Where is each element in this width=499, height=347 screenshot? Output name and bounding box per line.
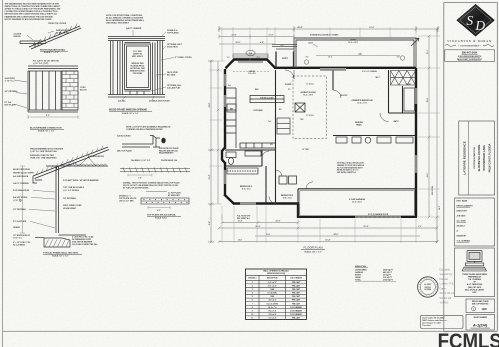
svg-text:2x4 P.T. HEADER: 2x4 P.T. HEADER bbox=[126, 27, 142, 30]
svg-text:13'-4": 13'-4" bbox=[208, 174, 211, 179]
svg-text:ON CLEAN COMPACTED FILL: ON CLEAN COMPACTED FILL bbox=[72, 243, 99, 246]
svg-text:7x8: 7x8 bbox=[268, 121, 271, 123]
svg-text:8'-0: 8'-0 bbox=[306, 57, 309, 59]
svg-text:16'-0 x 7'-0: 16'-0 x 7'-0 bbox=[268, 307, 276, 309]
svg-text:21'-0": 21'-0" bbox=[427, 173, 429, 178]
svg-text:10'-0": 10'-0" bbox=[427, 50, 429, 55]
top dimension line third bbox=[219, 43, 275, 45]
svg-text:@ 16" O.C.: @ 16" O.C. bbox=[5, 80, 15, 82]
svg-text:@ 16" O.C. (TYP): @ 16" O.C. (TYP) bbox=[33, 63, 49, 65]
svg-text:Date:: Date: bbox=[440, 286, 447, 290]
svg-text:DIRECTORY: DIRECTORY bbox=[457, 211, 468, 213]
svg-text:No. 56807: No. 56807 bbox=[424, 284, 431, 286]
svg-text:4-17-2005: 4-17-2005 bbox=[457, 220, 467, 223]
svg-text:SCALE: 1/4" = 1'-0": SCALE: 1/4" = 1'-0" bbox=[304, 250, 321, 253]
svg-text:FLOOR PLAN: FLOOR PLAN bbox=[303, 246, 322, 250]
bedroom closet bbox=[227, 168, 258, 174]
splice dim bbox=[148, 206, 170, 209]
window opening detail framing bbox=[108, 37, 165, 98]
svg-text:FCMLS: FCMLS bbox=[438, 330, 499, 347]
window size bubble bbox=[246, 50, 255, 55]
dimension extension lines top bbox=[222, 27, 437, 61]
svg-text:REF: REF bbox=[230, 109, 233, 111]
sheet number box bbox=[466, 315, 495, 331]
svg-text:@ 32" O.C.: @ 32" O.C. bbox=[13, 237, 23, 239]
svg-text:2x4 LAID FLAT: 2x4 LAID FLAT bbox=[167, 86, 181, 89]
svg-text:16'-0 x 10'-0: 16'-0 x 10'-0 bbox=[348, 42, 357, 44]
client info box bbox=[459, 121, 495, 195]
svg-text:ELIZABETH LATORRE: ELIZABETH LATORRE bbox=[478, 144, 481, 171]
svg-text:5x6: 5x6 bbox=[228, 85, 231, 87]
svg-text:17'-8": 17'-8" bbox=[269, 35, 274, 37]
svg-text:1'-4": 1'-4" bbox=[138, 177, 142, 180]
svg-text:LANAI: LANAI bbox=[355, 276, 361, 279]
corner plate fastener blob bbox=[161, 138, 165, 144]
svg-text:SHEET NUMBER: SHEET NUMBER bbox=[473, 317, 487, 319]
bottom dimension line first bbox=[222, 222, 298, 224]
SD diamond logo bbox=[457, 4, 495, 36]
svg-text:9'-0 x 8'-0: 9'-0 x 8'-0 bbox=[248, 73, 255, 75]
svg-text:ENTRY: ENTRY bbox=[282, 58, 289, 60]
door swing arcs bbox=[262, 70, 389, 204]
svg-text:34'-0": 34'-0" bbox=[438, 205, 441, 210]
svg-text:BLOCK/FRAME CONNECTION: BLOCK/FRAME CONNECTION bbox=[30, 127, 62, 130]
svg-text:BATH: BATH bbox=[394, 120, 400, 123]
bottom dimension line overall bbox=[219, 241, 437, 243]
svg-text:SCALE: 1/2" = 1'-0": SCALE: 1/2" = 1'-0" bbox=[52, 255, 69, 258]
svg-text:RIGHT HANGER DETAIL: RIGHT HANGER DETAIL bbox=[40, 48, 66, 51]
svg-text:REQUIREMENTS: REQUIREMENTS bbox=[159, 153, 174, 155]
window openings in walls bbox=[224, 68, 418, 218]
svg-text:40'-4": 40'-4" bbox=[297, 26, 302, 29]
wall section footing bbox=[35, 235, 86, 247]
svg-text:DESCRIPTION: DESCRIPTION bbox=[267, 278, 278, 280]
svg-text:ANALYSIS: ANALYSIS bbox=[355, 265, 366, 268]
top dimension line second bbox=[219, 36, 294, 38]
svg-text:2024 SQ FT: 2024 SQ FT bbox=[383, 268, 394, 271]
copyright box bbox=[466, 299, 495, 313]
svg-text:21'-0": 21'-0" bbox=[369, 27, 374, 29]
svg-text:(386) 747-0076: (386) 747-0076 bbox=[468, 286, 481, 289]
masonry column hatch bbox=[62, 71, 78, 110]
svg-text:1x4 P.T. FURRING: 1x4 P.T. FURRING bbox=[13, 182, 29, 185]
porch planter above bay bbox=[233, 54, 268, 58]
certification note box bbox=[421, 315, 464, 328]
svg-text:SCALE: 1" = 1'-0": SCALE: 1" = 1'-0" bbox=[44, 51, 59, 54]
svg-text:OVER 7/16" OSB SHEATHING: OVER 7/16" OSB SHEATHING bbox=[30, 157, 57, 160]
svg-text:386-447-3434: 386-447-3434 bbox=[462, 52, 478, 55]
svg-text:PREPARED BY: PREPARED BY bbox=[468, 275, 482, 278]
svg-text:EA. SIDE: EA. SIDE bbox=[167, 73, 176, 76]
svg-text:@ 6" O.C. EDGES: @ 6" O.C. EDGES bbox=[63, 190, 80, 192]
roof sheathing hatch ticks bbox=[36, 146, 103, 175]
svg-text:A.I.T. SERVICES: A.I.T. SERVICES bbox=[467, 283, 483, 286]
svg-text:8'-6 x 7'-0: 8'-6 x 7'-0 bbox=[269, 310, 276, 312]
svg-text:DRS-ELIZABETH: DRS-ELIZABETH bbox=[457, 205, 474, 208]
svg-text:11'-4": 11'-4" bbox=[238, 220, 243, 223]
bottom dimension line third bbox=[255, 235, 420, 237]
pantry shelves bbox=[277, 118, 290, 134]
svg-text:21'-4 x 21'-0: 21'-4 x 21'-0 bbox=[352, 201, 361, 204]
svg-text:1995: 1995 bbox=[482, 308, 488, 311]
svg-text:METHODS AND SITE CONDITIONS AN: METHODS AND SITE CONDITIONS AND SHALL VE… bbox=[5, 13, 58, 16]
svg-text:13'-4 x 17'-0: 13'-4 x 17'-0 bbox=[357, 102, 366, 105]
laundry appliances bbox=[279, 176, 297, 184]
svg-text:+ LANAI +: + LANAI + bbox=[348, 39, 359, 42]
svg-text:2'-0": 2'-0" bbox=[418, 226, 422, 228]
svg-text:VINYL SIDING OVER: VINYL SIDING OVER bbox=[63, 205, 82, 207]
svg-text:5x6: 5x6 bbox=[249, 53, 252, 55]
kitchen counters bbox=[225, 88, 305, 148]
svg-text:21'-4": 21'-4" bbox=[364, 225, 369, 228]
svg-text:FOR SIZES: FOR SIZES bbox=[133, 73, 143, 75]
svg-text:This sheet: This sheet bbox=[422, 324, 431, 327]
hall bath fixtures bbox=[226, 151, 261, 164]
seal rim text marks bbox=[418, 278, 437, 297]
svg-text:2024.06.11: 2024.06.11 bbox=[440, 291, 455, 295]
svg-text:OPENING #: OPENING # bbox=[248, 278, 257, 280]
plate nailing plate lines bbox=[120, 168, 190, 170]
ceiling insulation batt squiggle bbox=[60, 164, 107, 166]
svg-text:@ 24" O.C. SEE TRUSS PLAN: @ 24" O.C. SEE TRUSS PLAN bbox=[30, 150, 57, 153]
plate nailing dim ticks bbox=[128, 174, 152, 177]
svg-text:4 OLD KINGS ROAD NORTH: 4 OLD KINGS ROAD NORTH bbox=[458, 55, 482, 58]
svg-text:S: S bbox=[466, 13, 473, 28]
right dimension line inner bbox=[428, 36, 430, 217]
svg-text:KITCHEN: KITCHEN bbox=[254, 110, 263, 112]
svg-text:SHWR: SHWR bbox=[406, 84, 412, 86]
svg-text:2x4 SPF STUDS: 2x4 SPF STUDS bbox=[13, 196, 28, 199]
svg-text:16'-0 x 19'-8: 16'-0 x 19'-8 bbox=[303, 95, 312, 97]
garage interior wall faces bbox=[300, 191, 415, 216]
sheet bottom border line bbox=[3, 330, 466, 332]
svg-text:BAT INSULATION: BAT INSULATION bbox=[88, 155, 104, 158]
svg-text:13'-4": 13'-4" bbox=[426, 98, 429, 103]
svg-text:SCREEN ENCLOSURE BY OTHERS: SCREEN ENCLOSURE BY OTHERS bbox=[310, 35, 339, 37]
svg-text:W.I.C.: W.I.C. bbox=[376, 77, 381, 79]
svg-text:ALUM. DRIP EDGE: ALUM. DRIP EDGE bbox=[13, 168, 31, 171]
svg-text:12'-0": 12'-0" bbox=[238, 240, 243, 242]
FCMLS watermark text bbox=[438, 330, 499, 347]
svg-text:3'-0: 3'-0 bbox=[227, 57, 230, 59]
wall opening schedule table grid bbox=[246, 269, 307, 319]
svg-text:24'-0": 24'-0" bbox=[334, 233, 339, 236]
dimension extension lines left bbox=[209, 61, 225, 204]
title block outer borders bbox=[443, 3, 445, 332]
entry walls bbox=[276, 52, 294, 69]
svg-text:MFR. SPECS: MFR. SPECS bbox=[132, 56, 144, 58]
splice detail plate bar bbox=[141, 198, 189, 204]
svg-text:1/2" DRYWALL: 1/2" DRYWALL bbox=[13, 208, 27, 211]
svg-text:AS-BUILT: AS-BUILT bbox=[457, 225, 466, 228]
svg-text:BEDROOM 3: BEDROOM 3 bbox=[240, 186, 253, 188]
svg-text:STUD PACK: STUD PACK bbox=[167, 45, 179, 48]
svg-text:R-13 INSULATION: R-13 INSULATION bbox=[13, 189, 30, 192]
bay window glass lines bbox=[238, 62, 263, 63]
truss web lines bbox=[66, 157, 96, 166]
svg-text:USE DETAIL THIS SHEET: USE DETAIL THIS SHEET bbox=[106, 22, 130, 25]
svg-text:GARAGE: GARAGE bbox=[355, 271, 364, 274]
svg-text:SEE SHEET A-4: SEE SHEET A-4 bbox=[237, 217, 250, 220]
svg-text:TOP PLATES: TOP PLATES bbox=[167, 31, 179, 34]
wall section fascia bbox=[33, 176, 42, 183]
svg-text:TRUSS TOP CHORD: TRUSS TOP CHORD bbox=[48, 23, 67, 25]
right dimension line outer bbox=[436, 29, 438, 242]
svg-text:10'-8": 10'-8" bbox=[276, 221, 281, 223]
svg-text:PLATE NAILS 16d: PLATE NAILS 16d bbox=[161, 159, 178, 162]
svg-text:6'-8: 6'-8 bbox=[397, 57, 400, 59]
svg-text:3068: 3068 bbox=[270, 296, 274, 298]
svg-text:PALM COAST, FLORIDA: PALM COAST, FLORIDA bbox=[488, 144, 491, 173]
svg-text:2x4 BLOCKING: 2x4 BLOCKING bbox=[117, 135, 131, 138]
svg-text:ATTEST TO THE ACCURACY OF THE: ATTEST TO THE ACCURACY OF THE WORK PERFO… bbox=[5, 8, 62, 11]
svg-text:7: 7 bbox=[252, 303, 253, 305]
svg-text:5: 5 bbox=[252, 296, 253, 298]
svg-text:24'-8": 24'-8" bbox=[208, 102, 211, 107]
svg-text:11: 11 bbox=[251, 318, 253, 320]
dimension extension lines bottom bbox=[222, 206, 437, 243]
svg-text:2-CAR GARAGE: 2-CAR GARAGE bbox=[349, 198, 366, 201]
svg-text:16d NAILS @ 16" O.C.: 16d NAILS @ 16" O.C. bbox=[131, 159, 151, 162]
computer icon monitor bbox=[466, 251, 484, 266]
left dimension line inner bbox=[217, 61, 219, 204]
svg-text:BEDROOM 2: BEDROOM 2 bbox=[281, 195, 294, 197]
right hanger detail drawing bbox=[20, 24, 81, 49]
keynote arrow bbox=[411, 38, 419, 46]
svg-text:2'-8" x 6'-2": 2'-8" x 6'-2" bbox=[268, 285, 277, 287]
footing hatch bbox=[45, 240, 70, 247]
svg-text:D: D bbox=[474, 18, 485, 33]
svg-text:AT EA. TRUSS: AT EA. TRUSS bbox=[56, 31, 70, 34]
floor plan exterior walls bbox=[222, 60, 417, 219]
svg-text:ARE COPYRIGHTED: ARE COPYRIGHTED bbox=[472, 302, 489, 305]
svg-text:NOTIFY ENGINEER OF ANY DISCREP: NOTIFY ENGINEER OF ANY DISCREPANCIES FOU… bbox=[5, 18, 53, 21]
svg-text:35 RIVERBANK LANE: 35 RIVERBANK LANE bbox=[483, 145, 486, 171]
svg-text:BLOCK: BLOCK bbox=[80, 89, 87, 91]
owner bath fixtures bbox=[336, 88, 415, 143]
svg-text:BILL ON FILE LATER: BILL ON FILE LATER bbox=[465, 288, 484, 291]
svg-text:2x6 SUB FASCIA: 2x6 SUB FASCIA bbox=[13, 175, 29, 178]
plate nailing nail marks bbox=[123, 168, 187, 173]
wall studs vertical bbox=[55, 166, 57, 233]
left dimension line outer bbox=[210, 61, 212, 242]
dimension extension lines right bbox=[418, 36, 440, 217]
svg-text:61'-4": 61'-4" bbox=[326, 239, 331, 242]
svg-text:443 SQ FT: 443 SQ FT bbox=[383, 271, 393, 274]
svg-text:FASCIA: FASCIA bbox=[14, 35, 22, 38]
svg-text:T. A. CURRAN: T. A. CURRAN bbox=[457, 240, 471, 243]
svg-text:DWG. NAME: DWG. NAME bbox=[457, 200, 468, 203]
svg-text:10: 10 bbox=[251, 314, 253, 316]
block frame dim line bbox=[28, 116, 78, 118]
svg-text:VENTED ALUM. SOFFIT: VENTED ALUM. SOFFIT bbox=[13, 172, 35, 175]
svg-text:JOB DATE: JOB DATE bbox=[457, 215, 467, 218]
svg-text:SCALE: 1/2" = 1'-0": SCALE: 1/2" = 1'-0" bbox=[38, 130, 55, 133]
lanai walls bbox=[294, 38, 416, 68]
svg-text:7/16" OSB W/ 8d NAILS: 7/16" OSB W/ 8d NAILS bbox=[63, 186, 85, 189]
svg-text:22'-0": 22'-0" bbox=[256, 226, 261, 228]
svg-text:R-13 BATT INSUL. W/ VAPOR BARR: R-13 BATT INSUL. W/ VAPOR BARRIER bbox=[63, 179, 99, 182]
svg-text:CUSTOM HOME FOR: CUSTOM HOME FOR bbox=[474, 147, 476, 169]
svg-text:CORNERS UNLESS OTHERWISE NOTED: CORNERS UNLESS OTHERWISE NOTED bbox=[126, 129, 163, 131]
svg-text:2702 SQ FT: 2702 SQ FT bbox=[383, 280, 394, 282]
svg-text:T.A. CURRAN: T.A. CURRAN bbox=[468, 278, 481, 281]
interior walls bbox=[225, 70, 416, 217]
svg-text:GREAT ROOM: GREAT ROOM bbox=[301, 91, 316, 94]
svg-text:(WINDOW AND DOOR): (WINDOW AND DOOR) bbox=[267, 272, 286, 275]
svg-text:PANEL: PANEL bbox=[356, 123, 362, 126]
wall section left dimension line bbox=[22, 166, 24, 233]
drawing info box bbox=[455, 198, 495, 246]
svg-text:13'-0: 13'-0 bbox=[328, 57, 332, 59]
svg-text:A-1(2/4): A-1(2/4) bbox=[472, 323, 488, 328]
svg-text:1: 1 bbox=[252, 282, 253, 284]
svg-text:~ CUSTOM HOMES ~: ~ CUSTOM HOMES ~ bbox=[458, 46, 482, 48]
svg-text:SCALE: 1/2" = 1'-0": SCALE: 1/2" = 1'-0" bbox=[122, 112, 139, 115]
svg-text:AT MIDPOINT: AT MIDPOINT bbox=[168, 194, 181, 197]
svg-text:BOT. PLATE: BOT. PLATE bbox=[5, 103, 17, 106]
lanai interior dim line bbox=[316, 55, 400, 57]
svg-text:2" X WALL STUDS: 2" X WALL STUDS bbox=[175, 56, 192, 59]
svg-text:1/2" DRYWALL: 1/2" DRYWALL bbox=[63, 197, 77, 200]
svg-text:STOUGHTON & DORAN: STOUGHTON & DORAN bbox=[447, 39, 492, 43]
bottom dimension line second bbox=[219, 227, 437, 229]
svg-text:6: 6 bbox=[252, 300, 253, 302]
svg-text:THESE PLANS HAVE BEEN: THESE PLANS HAVE BEEN bbox=[462, 273, 487, 276]
svg-text:3: 3 bbox=[252, 289, 253, 291]
splice bar nail dots bbox=[144, 199, 188, 203]
computer icon keyboard bbox=[462, 267, 487, 271]
svg-text:THE UNDERSIGNED HAS NOT BEEN R: THE UNDERSIGNED HAS NOT BEEN RETAINED FO… bbox=[5, 3, 60, 6]
scan edge line left bbox=[2, 0, 4, 347]
owner closet shelf hatch bbox=[391, 71, 416, 86]
svg-text:GRADE: GRADE bbox=[13, 226, 21, 229]
preparer box bbox=[455, 248, 495, 297]
svg-text:6'-2": 6'-2" bbox=[260, 42, 264, 44]
svg-text:INSPECTIONS OF CONSTRUCTION AN: INSPECTIONS OF CONSTRUCTION AND THEREFOR… bbox=[5, 5, 62, 8]
svg-text:LAP @ 4'-0" MIN.: LAP @ 4'-0" MIN. bbox=[119, 200, 134, 203]
engineer seal circle bbox=[418, 277, 438, 297]
svg-text:6'-0 x 6'-8: 6'-0 x 6'-8 bbox=[269, 318, 276, 320]
svg-text:HOUSE WRAP: HOUSE WRAP bbox=[63, 207, 77, 210]
svg-text:8: 8 bbox=[252, 307, 253, 309]
svg-text:SEE DETAIL SHEET A-3: SEE DETAIL SHEET A-3 bbox=[337, 171, 356, 174]
svg-text:Digitally: Digitally bbox=[440, 267, 451, 271]
svg-text:SCALE: N.T.S.: SCALE: N.T.S. bbox=[155, 217, 168, 220]
svg-text:FOYER: FOYER bbox=[285, 84, 292, 86]
frame wall section roof lines bbox=[33, 147, 109, 179]
svg-text:12'-8": 12'-8" bbox=[232, 35, 237, 37]
block frame connection detail drawing bbox=[28, 66, 78, 112]
phone address box bbox=[445, 50, 495, 62]
svg-text:TILE: TILE bbox=[300, 119, 303, 121]
nook ceiling dashed line bbox=[233, 71, 270, 73]
svg-text:W/ 2 #5 BARS: W/ 2 #5 BARS bbox=[13, 243, 26, 246]
svg-text:9'-4": 9'-4" bbox=[208, 221, 211, 225]
svg-text:LATORRE RESIDENCE: LATORRE RESIDENCE bbox=[462, 141, 466, 175]
top dimension ticks bbox=[218, 26, 440, 32]
svg-text:LIVING AREA: LIVING AREA bbox=[355, 268, 367, 271]
svg-text:signed by: signed by bbox=[440, 272, 453, 276]
svg-text:2'-8 x 6'-8: 2'-8 x 6'-8 bbox=[269, 314, 276, 316]
svg-text:DBL TOP PLATE: DBL TOP PLATE bbox=[117, 150, 133, 153]
svg-text:@ 16" O.C.: @ 16" O.C. bbox=[13, 200, 23, 202]
svg-text:5068: 5068 bbox=[270, 289, 274, 291]
svg-text:8'-0": 8'-0" bbox=[46, 115, 50, 117]
svg-text:4'-0": 4'-0" bbox=[157, 209, 161, 212]
svg-text:P.T. 2x4 PLATE: P.T. 2x4 PLATE bbox=[13, 220, 27, 223]
svg-text:TOP PLATE SPLICE DETAIL: TOP PLATE SPLICE DETAIL bbox=[147, 214, 177, 217]
svg-text:4: 4 bbox=[252, 292, 253, 295]
svg-text:2: 2 bbox=[252, 285, 253, 287]
garage door header dashes bbox=[355, 216, 401, 218]
svg-text:WOOD FRAME WINDOW OPENING: WOOD FRAME WINDOW OPENING bbox=[109, 109, 147, 112]
svg-text:NOOK: NOOK bbox=[249, 71, 256, 73]
svg-text:Lubke, P.E.: Lubke, P.E. bbox=[440, 282, 455, 286]
great room tray ceiling dashed bbox=[293, 76, 327, 139]
svg-text:AT PLAN, SPLICE PER DETAIL: AT PLAN, SPLICE PER DETAIL bbox=[123, 187, 149, 190]
svg-text:10'-6": 10'-6" bbox=[236, 42, 241, 44]
svg-text:09:34:28: 09:34:28 bbox=[440, 296, 452, 300]
svg-text:2007: 2007 bbox=[472, 292, 476, 294]
svg-text:DIMENSIONS AND CONDITIONS AT T: DIMENSIONS AND CONDITIONS AT THE JOB SIT… bbox=[5, 15, 54, 18]
svg-text:TYPICAL FRAME WALL SECTION: TYPICAL FRAME WALL SECTION bbox=[43, 252, 78, 255]
svg-text:CONTRACTOR IS RESPONSIBLE FOR: CONTRACTOR IS RESPONSIBLE FOR ALL CONSTR… bbox=[5, 10, 58, 13]
corner plate plan drawing bbox=[122, 136, 160, 148]
svg-text:6' X 6'-8 DR.: 6' X 6'-8 DR. bbox=[268, 293, 278, 295]
svg-text:8 1/2' (2) GARAGE DOOR: 8 1/2' (2) GARAGE DOOR bbox=[368, 213, 389, 216]
top dimension line overall bbox=[219, 28, 438, 30]
svg-text:DRAWN BY: DRAWN BY bbox=[457, 235, 468, 238]
svg-text:9: 9 bbox=[252, 310, 253, 312]
